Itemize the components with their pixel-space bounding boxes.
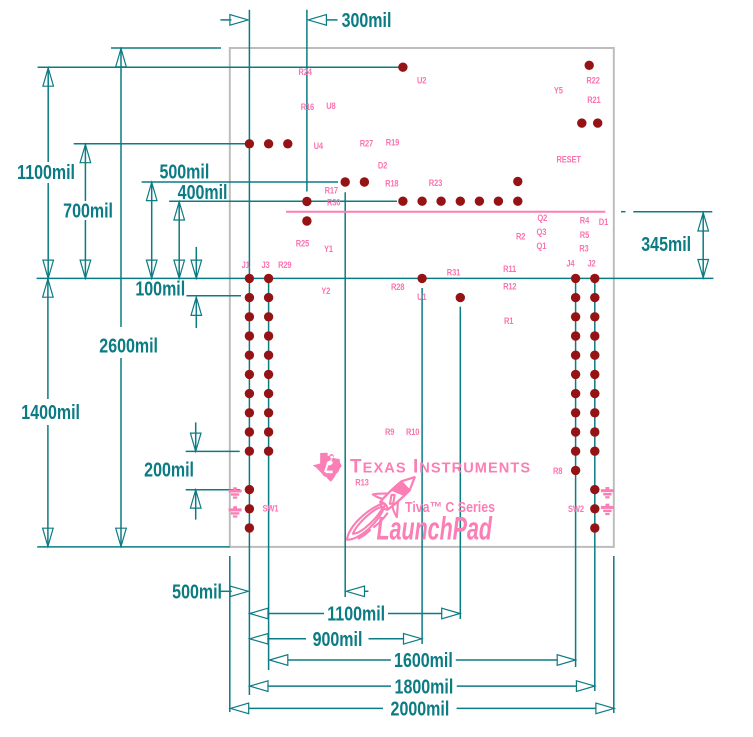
svg-text:400mil: 400mil bbox=[178, 181, 228, 203]
svg-text:LaunchPad: LaunchPad bbox=[377, 510, 494, 546]
svg-text:R8: R8 bbox=[553, 465, 563, 476]
svg-text:R27: R27 bbox=[360, 138, 374, 149]
svg-text:R4: R4 bbox=[580, 215, 590, 226]
svg-text:Y2: Y2 bbox=[321, 285, 330, 296]
extension line row1 (100mil) bbox=[186, 295, 241, 297]
dimension 345mil (right) bbox=[702, 212, 704, 277]
svg-text:2000mil: 2000mil bbox=[391, 698, 450, 720]
svg-text:R30: R30 bbox=[327, 197, 341, 208]
svg-text:J1: J1 bbox=[242, 259, 251, 270]
silkscreen line D1 row bbox=[286, 211, 605, 213]
board outline bbox=[230, 48, 614, 547]
svg-text:R17: R17 bbox=[325, 185, 339, 196]
svg-text:R24: R24 bbox=[299, 66, 313, 77]
svg-text:R3: R3 bbox=[579, 243, 589, 254]
svg-text:R13: R13 bbox=[355, 477, 369, 488]
ground symbol left upper bbox=[229, 487, 242, 498]
svg-text:TEXAS INSTRUMENTS: TEXAS INSTRUMENTS bbox=[350, 456, 531, 477]
pads J2 column bbox=[590, 274, 599, 283]
extension line J1 column (full) bbox=[248, 10, 250, 695]
dimension 1100mil (bottom) bbox=[250, 608, 268, 619]
svg-text:1400mil: 1400mil bbox=[21, 401, 80, 423]
dimension 1400mil (left) bbox=[47, 279, 49, 399]
extension line J4 column bbox=[575, 278, 577, 667]
svg-text:R2: R2 bbox=[516, 231, 526, 242]
extension line board-left bottom bbox=[229, 556, 231, 712]
dimension 1100mil (left) bbox=[47, 68, 49, 162]
svg-text:R1: R1 bbox=[504, 315, 514, 326]
pad R30 bbox=[302, 197, 311, 206]
pads 400mil row bbox=[398, 197, 407, 206]
extension line row9 (200mil top) bbox=[186, 450, 240, 452]
pads R14 row bbox=[245, 139, 254, 148]
svg-text:1100mil: 1100mil bbox=[17, 162, 75, 184]
pads J3 column bbox=[264, 274, 273, 283]
dimension 900mil (bottom) bbox=[250, 634, 268, 645]
svg-text:J3: J3 bbox=[262, 259, 271, 270]
extension line row11 (200mil bottom) bbox=[186, 489, 240, 491]
svg-text:1600mil: 1600mil bbox=[394, 650, 453, 672]
svg-text:R16: R16 bbox=[301, 101, 315, 112]
svg-text:R12: R12 bbox=[503, 281, 517, 292]
svg-text:R28: R28 bbox=[391, 281, 405, 292]
svg-text:R25: R25 bbox=[296, 238, 310, 249]
pad R31 bbox=[456, 293, 465, 302]
svg-text:Q3: Q3 bbox=[537, 226, 547, 237]
dimension 200mil (left, outside arrows) bbox=[195, 422, 197, 451]
extension line R30 column top bbox=[306, 10, 308, 192]
extension line J3 column bbox=[268, 278, 270, 670]
svg-text:200mil: 200mil bbox=[144, 459, 194, 481]
svg-text:D1: D1 bbox=[599, 216, 609, 227]
svg-text:R18: R18 bbox=[385, 178, 399, 189]
svg-text:500mil: 500mil bbox=[159, 161, 209, 183]
svg-text:Q1: Q1 bbox=[537, 240, 547, 251]
svg-text:1800mil: 1800mil bbox=[395, 676, 454, 698]
svg-text:RESET: RESET bbox=[557, 154, 582, 165]
ground symbol right lower bbox=[601, 504, 614, 515]
pad R28 bbox=[417, 274, 426, 283]
extension line baseline row bbox=[37, 277, 714, 279]
svg-text:Y5: Y5 bbox=[554, 85, 563, 96]
svg-text:900mil: 900mil bbox=[313, 628, 363, 650]
dimension 500mil (left) bbox=[151, 182, 153, 278]
svg-text:SW2: SW2 bbox=[568, 503, 584, 514]
extension line U1 column bbox=[421, 288, 423, 644]
pad U2 bbox=[398, 62, 407, 71]
dimension 1800mil (bottom) bbox=[250, 681, 268, 692]
svg-text:U8: U8 bbox=[326, 100, 336, 111]
extension line board-right bottom bbox=[613, 556, 615, 713]
svg-text:D2: D2 bbox=[378, 160, 388, 171]
extension line U2 row bbox=[38, 66, 403, 68]
extension line R17 row (500mil) bbox=[142, 181, 338, 183]
dimension 2600mil (left) bbox=[120, 49, 122, 328]
dimension 400mil (left) bbox=[178, 202, 180, 279]
svg-text:R22: R22 bbox=[586, 75, 600, 86]
pad right of R23 bbox=[513, 177, 522, 186]
svg-text:R21: R21 bbox=[587, 94, 601, 105]
dimension 2000mil (bottom) bbox=[230, 703, 248, 714]
svg-text:SW1: SW1 bbox=[263, 503, 279, 514]
dimension 100mil (left, outside arrows) bbox=[195, 247, 197, 278]
extension line R17 column bbox=[344, 192, 346, 597]
TI logo bug (Texas outline) bbox=[313, 453, 342, 482]
pads R17 row bbox=[341, 177, 350, 186]
dimension 1600mil (bottom) bbox=[270, 655, 288, 666]
svg-text:R10: R10 bbox=[406, 426, 420, 437]
svg-text:Q2: Q2 bbox=[537, 212, 547, 223]
svg-text:100mil: 100mil bbox=[135, 278, 185, 300]
dimension 300mil (top) bbox=[220, 19, 231, 21]
svg-text:1100mil: 1100mil bbox=[327, 603, 385, 625]
pads R21 pair bbox=[577, 118, 586, 127]
svg-text:700mil: 700mil bbox=[63, 200, 113, 222]
svg-text:U1: U1 bbox=[417, 291, 427, 302]
svg-text:R19: R19 bbox=[386, 137, 400, 148]
extension line R31 column bbox=[459, 307, 461, 619]
svg-text:R23: R23 bbox=[429, 177, 443, 188]
svg-text:345mil: 345mil bbox=[641, 233, 691, 255]
extension line J2 column bbox=[594, 278, 596, 691]
extension line R14 row bbox=[74, 143, 250, 145]
extension line board-top left bbox=[111, 47, 221, 49]
extension line R30 row (400mil) bbox=[169, 200, 397, 202]
pads J1 column bbox=[245, 274, 254, 283]
ground symbol left lower bbox=[229, 506, 242, 517]
svg-text:J4: J4 bbox=[566, 258, 575, 269]
pad R25 bbox=[302, 216, 311, 225]
extension line board-bottom left bbox=[37, 546, 230, 548]
svg-text:R11: R11 bbox=[503, 263, 516, 274]
svg-text:500mil: 500mil bbox=[172, 581, 222, 603]
svg-text:R29: R29 bbox=[278, 259, 292, 270]
extension line 345mil top bbox=[633, 211, 712, 213]
pads J4 column bbox=[571, 274, 580, 283]
svg-text:J2: J2 bbox=[588, 258, 597, 269]
svg-text:U2: U2 bbox=[417, 75, 427, 86]
svg-text:R5: R5 bbox=[580, 229, 590, 240]
dimension 700mil (left) bbox=[84, 145, 86, 201]
dimension 500mil (bottom) bbox=[220, 590, 232, 592]
svg-text:Y1: Y1 bbox=[324, 243, 333, 254]
rocket graphic bbox=[336, 466, 426, 553]
svg-text:300mil: 300mil bbox=[342, 9, 392, 31]
svg-text:2600mil: 2600mil bbox=[99, 335, 158, 357]
svg-text:R31: R31 bbox=[447, 267, 461, 278]
pad R22 bbox=[585, 61, 594, 70]
ground symbol right upper bbox=[601, 487, 614, 498]
svg-text:R9: R9 bbox=[385, 426, 395, 437]
svg-text:U4: U4 bbox=[314, 140, 324, 151]
